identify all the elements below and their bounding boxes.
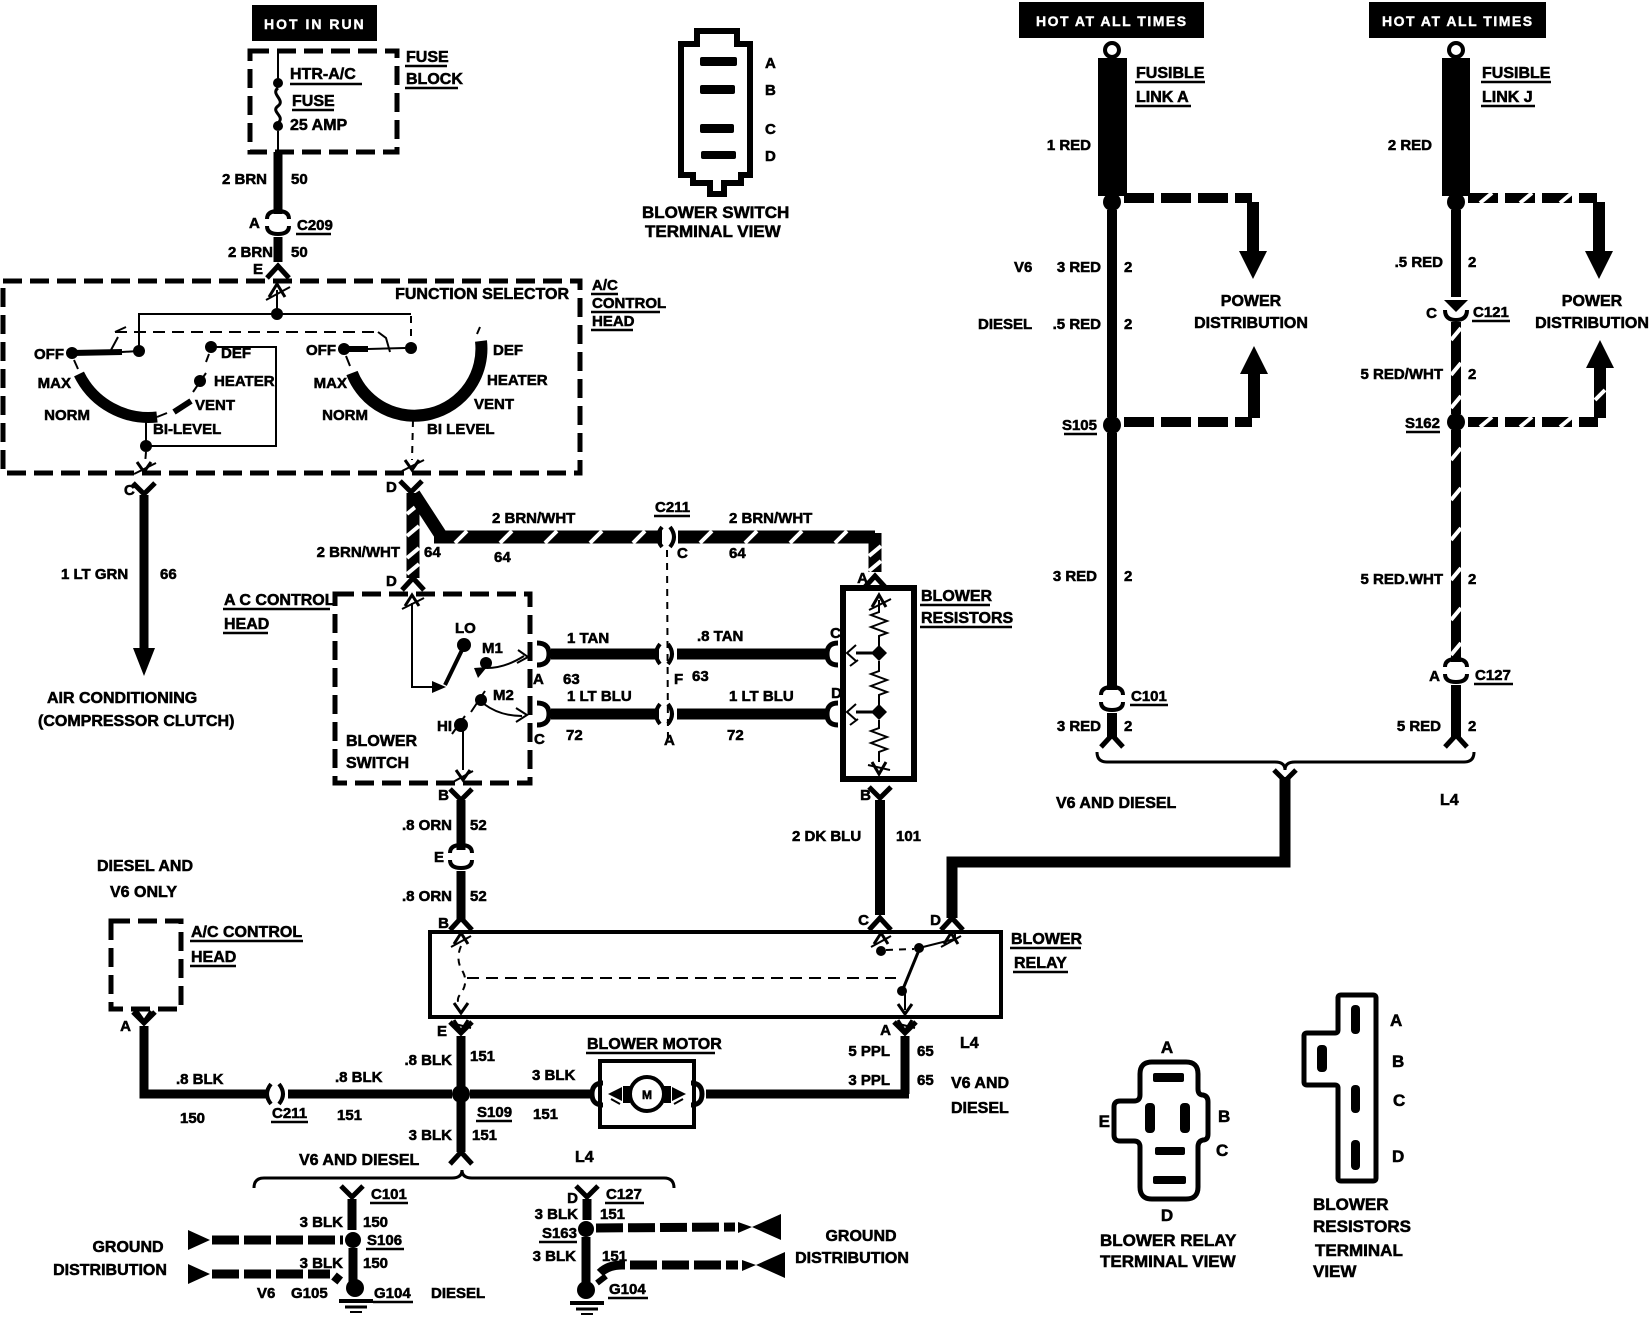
- svg-text:M1: M1: [482, 640, 503, 657]
- svg-text:2 RED: 2 RED: [1388, 137, 1432, 154]
- blower switch box: [335, 594, 530, 783]
- left HEATER contact: [194, 375, 206, 387]
- svg-text:3 RED: 3 RED: [1053, 568, 1097, 585]
- terminal slots: [700, 57, 737, 66]
- svg-text:A: A: [1390, 1011, 1402, 1030]
- wire .8 TAN 63: [677, 649, 826, 660]
- fusible link A: [1098, 58, 1127, 196]
- power tag HOT AT ALL TIMES: [1369, 2, 1546, 38]
- dashed feed up to power distribution: [1124, 417, 1252, 427]
- svg-text:3 BLK: 3 BLK: [533, 1248, 577, 1265]
- svg-text:C: C: [858, 912, 869, 929]
- svg-text:DISTRIBUTION: DISTRIBUTION: [53, 1262, 167, 1279]
- svg-text:A C CONTROL: A C CONTROL: [224, 592, 335, 609]
- connector A on LT BLU: [656, 704, 660, 724]
- svg-text:63: 63: [692, 668, 709, 685]
- wire .8 BLK 150: [144, 1026, 268, 1094]
- svg-text:FUSIBLE: FUSIBLE: [1482, 65, 1551, 82]
- svg-text:C211: C211: [655, 499, 690, 516]
- svg-text:HEAD: HEAD: [592, 313, 635, 330]
- svg-text:POWER: POWER: [1562, 293, 1623, 310]
- svg-text:D: D: [386, 479, 397, 496]
- svg-text:1 TAN: 1 TAN: [567, 630, 609, 647]
- svg-text:E: E: [1099, 1112, 1110, 1131]
- left OFF contact: [66, 347, 78, 359]
- wire 5 RED.WHT 2 hatched: [1451, 430, 1461, 662]
- svg-text:A: A: [765, 55, 776, 72]
- connector C101: [1101, 687, 1123, 695]
- svg-text:65: 65: [917, 1043, 934, 1060]
- wire / node inside: [276, 290, 278, 314]
- svg-text:BLOWER RELAY: BLOWER RELAY: [1100, 1231, 1237, 1250]
- svg-text:NORM: NORM: [44, 407, 90, 424]
- svg-text:MAX: MAX: [38, 375, 71, 392]
- diesel A/C head box: [111, 921, 181, 1009]
- svg-text:.5 RED: .5 RED: [1395, 254, 1444, 271]
- wire end cup at E: [267, 266, 289, 278]
- wire 1 LT GRN 66: [140, 495, 149, 650]
- svg-text:50: 50: [291, 244, 308, 261]
- svg-text:C: C: [1393, 1091, 1405, 1110]
- svg-text:G105: G105: [291, 1285, 328, 1302]
- svg-text:2: 2: [1124, 568, 1132, 585]
- M2 contact: [475, 694, 487, 706]
- dashed feed to power distribution: [1124, 193, 1252, 203]
- svg-text:C101: C101: [371, 1186, 407, 1203]
- svg-text:150: 150: [363, 1214, 388, 1231]
- svg-text:V6: V6: [1014, 259, 1032, 276]
- svg-text:D: D: [1161, 1206, 1173, 1225]
- ground dist arrow upper right: [596, 1227, 735, 1228]
- wire 3 BLK 150 lower: [349, 1248, 358, 1284]
- svg-text:TERMINAL VIEW: TERMINAL VIEW: [645, 222, 782, 241]
- svg-text:HEAD: HEAD: [224, 616, 269, 633]
- svg-text:.8 TAN: .8 TAN: [697, 628, 743, 645]
- svg-text:V6 ONLY: V6 ONLY: [110, 884, 177, 901]
- svg-text:66: 66: [160, 566, 177, 583]
- relay coil entry arrow B: [454, 933, 468, 944]
- dashed connector face line C211: [667, 550, 668, 742]
- svg-text:.5 RED: .5 RED: [1053, 316, 1102, 333]
- svg-text:BLOWER SWITCH: BLOWER SWITCH: [642, 203, 789, 222]
- svg-text:C: C: [677, 545, 688, 562]
- splice S105: [1103, 416, 1121, 434]
- svg-text:L4: L4: [575, 1149, 594, 1166]
- svg-text:1 LT BLU: 1 LT BLU: [729, 688, 794, 705]
- svg-text:NORM: NORM: [322, 407, 368, 424]
- wire 2 BRN 50 upper: [274, 152, 283, 214]
- svg-text:.8 BLK: .8 BLK: [404, 1052, 452, 1069]
- wire 3 RED 2 lower: [1107, 433, 1117, 690]
- connector C211: [654, 499, 690, 547]
- wire 3 BLK 151 below S109: [457, 1102, 466, 1152]
- connector C101 bottom: [341, 1186, 363, 1197]
- svg-text:TERMINAL VIEW: TERMINAL VIEW: [1100, 1252, 1237, 1271]
- battery terminal ring: [1105, 43, 1119, 57]
- svg-text:2 DK BLU: 2 DK BLU: [792, 828, 861, 845]
- motor arrows: [608, 1087, 622, 1101]
- right switch common node: [0, 0, 1, 1]
- svg-text:D: D: [567, 1190, 578, 1207]
- wire 3 BLK 151 lower: [582, 1237, 591, 1286]
- svg-text:BLOWER: BLOWER: [921, 588, 993, 605]
- svg-text:D: D: [386, 573, 397, 590]
- wire 5 RED 2 end: [1451, 685, 1461, 737]
- svg-text:2: 2: [1124, 316, 1132, 333]
- svg-text:C: C: [765, 121, 776, 138]
- svg-text:DISTRIBUTION: DISTRIBUTION: [1535, 315, 1649, 332]
- relay connector outline: [1114, 1062, 1208, 1199]
- svg-text:1 LT BLU: 1 LT BLU: [567, 688, 632, 705]
- svg-text:BLOWER: BLOWER: [346, 733, 418, 750]
- connector C209: [249, 211, 333, 234]
- resistor terminal D cup: [827, 703, 838, 725]
- svg-text:GROUND: GROUND: [92, 1239, 163, 1256]
- svg-text:DISTRIBUTION: DISTRIBUTION: [1194, 315, 1308, 332]
- svg-text:(COMPRESSOR CLUTCH): (COMPRESSOR CLUTCH): [38, 713, 234, 730]
- svg-text:G104: G104: [374, 1285, 411, 1302]
- svg-text:DISTRIBUTION: DISTRIBUTION: [795, 1250, 909, 1267]
- svg-text:150: 150: [363, 1255, 388, 1272]
- svg-text:C211: C211: [272, 1105, 307, 1122]
- wire .5 RED 2: [1451, 210, 1461, 297]
- svg-text:63: 63: [563, 671, 580, 688]
- right OFF contact: [338, 343, 350, 355]
- svg-text:151: 151: [600, 1206, 625, 1223]
- svg-text:.8 ORN: .8 ORN: [402, 817, 452, 834]
- LO contact: [445, 650, 462, 685]
- svg-text:2: 2: [1468, 254, 1476, 271]
- svg-text:VENT: VENT: [474, 396, 514, 413]
- svg-text:2: 2: [1468, 718, 1476, 735]
- right rotor arc: [352, 341, 481, 416]
- wire 2 BRN 50 lower: [274, 237, 283, 262]
- svg-text:FUNCTION SELECTOR: FUNCTION SELECTOR: [395, 286, 569, 303]
- svg-text:LINK A: LINK A: [1136, 89, 1189, 106]
- fuse HTR-A/C 25A: [273, 66, 362, 152]
- label FUSE BLOCK: [405, 49, 463, 88]
- connector C127 bottom: [576, 1186, 598, 1197]
- resistor element 3: [871, 720, 887, 762]
- relay exit A arrow: [898, 1020, 912, 1031]
- svg-text:BLOWER MOTOR: BLOWER MOTOR: [587, 1036, 722, 1053]
- splice node below link J: [1447, 193, 1465, 211]
- relay slots: [1153, 1073, 1184, 1082]
- svg-text:2 BRN/WHT: 2 BRN/WHT: [729, 510, 812, 527]
- power tag HOT IN RUN: [252, 5, 377, 41]
- svg-text:72: 72: [566, 727, 583, 744]
- svg-text:S163: S163: [542, 1225, 577, 1242]
- resistors connector outline: [1304, 995, 1376, 1181]
- resistor terminal C cup: [827, 643, 838, 665]
- svg-text:MAX: MAX: [314, 375, 347, 392]
- ground dist arrow lower left: [188, 1264, 210, 1284]
- relay exit E arrow: [454, 1020, 468, 1031]
- svg-text:C209: C209: [297, 217, 333, 234]
- wire bus across selector: [139, 314, 411, 351]
- wire 1 LT BLU 72 right: [677, 709, 826, 720]
- svg-text:VIEW: VIEW: [1313, 1262, 1357, 1281]
- svg-text:C: C: [1426, 305, 1437, 322]
- svg-text:SWITCH: SWITCH: [346, 755, 409, 772]
- svg-text:FUSE: FUSE: [292, 93, 335, 110]
- svg-text:G104: G104: [609, 1281, 646, 1298]
- svg-text:DIESEL AND: DIESEL AND: [97, 858, 193, 875]
- svg-text:A/C: A/C: [592, 277, 618, 294]
- svg-text:S109: S109: [477, 1104, 512, 1121]
- HI contact: [454, 718, 468, 732]
- svg-text:3 PPL: 3 PPL: [848, 1072, 890, 1089]
- svg-text:AIR CONDITIONING: AIR CONDITIONING: [47, 690, 197, 707]
- svg-text:3 BLK: 3 BLK: [409, 1127, 453, 1144]
- wire 3 BLK 151: [583, 1199, 592, 1220]
- svg-text:151: 151: [472, 1127, 497, 1144]
- svg-text:RESISTORS: RESISTORS: [921, 610, 1014, 627]
- svg-text:OFF: OFF: [34, 346, 64, 363]
- svg-text:C: C: [830, 625, 841, 642]
- relay contact C arrow: [874, 933, 888, 944]
- svg-text:A: A: [664, 732, 675, 749]
- exit arrow bottom: [872, 762, 886, 774]
- entry arrow E into selector: [266, 284, 290, 300]
- wire 3 RED 2: [1107, 210, 1117, 417]
- svg-text:D: D: [930, 912, 941, 929]
- svg-text:BI-LEVEL: BI-LEVEL: [153, 421, 221, 438]
- battery terminal ring: [1449, 43, 1463, 57]
- wire 3 PPL to motor: [706, 1090, 909, 1099]
- svg-text:.8 BLK: .8 BLK: [176, 1071, 224, 1088]
- resistor element 1: [871, 610, 887, 648]
- relay internal dashed bus: [467, 977, 896, 979]
- node junction: [271, 308, 283, 320]
- svg-text:2: 2: [1468, 571, 1476, 588]
- svg-text:2: 2: [1468, 366, 1476, 383]
- svg-text:1 LT GRN: 1 LT GRN: [61, 566, 128, 583]
- svg-text:V6 AND: V6 AND: [951, 1075, 1009, 1092]
- svg-text:HOT IN RUN: HOT IN RUN: [264, 16, 366, 32]
- relay contact network: [876, 946, 886, 956]
- svg-text:L4: L4: [1440, 792, 1459, 809]
- wire 2 BRN/WHT right of C211: [678, 531, 881, 572]
- brace V6 AND DIESEL / L4: [254, 1170, 674, 1188]
- svg-text:A/C CONTROL: A/C CONTROL: [191, 924, 302, 941]
- connector C211 lower: [267, 1084, 271, 1104]
- power tag HOT AT ALL TIMES: [1019, 2, 1204, 38]
- resistor element 2: [871, 661, 887, 707]
- svg-text:BLOWER: BLOWER: [1313, 1195, 1389, 1214]
- svg-text:B: B: [438, 787, 449, 804]
- switch wiper feed: [412, 603, 432, 687]
- svg-text:HEATER: HEATER: [487, 372, 548, 389]
- wire 1 LT BLU 72: [551, 709, 659, 720]
- svg-text:A: A: [120, 1018, 131, 1035]
- svg-text:A: A: [1161, 1038, 1173, 1057]
- wire 2 BRN/WHT diagonal+horizontal 64: [414, 494, 662, 543]
- svg-text:E: E: [437, 1023, 447, 1040]
- svg-text:2 BRN/WHT: 2 BRN/WHT: [317, 544, 400, 561]
- svg-text:TERMINAL: TERMINAL: [1315, 1241, 1403, 1260]
- svg-text:3 BLK: 3 BLK: [535, 1206, 579, 1223]
- svg-text:A: A: [1429, 668, 1440, 685]
- left DEF contact: [205, 341, 217, 353]
- svg-text:LO: LO: [455, 620, 476, 637]
- left VENT contact: [174, 401, 191, 412]
- svg-text:65: 65: [917, 1072, 934, 1089]
- svg-text:E: E: [253, 261, 263, 278]
- svg-text:25 AMP: 25 AMP: [290, 117, 348, 134]
- svg-text:52: 52: [470, 817, 487, 834]
- splice S163: [578, 1221, 594, 1237]
- svg-text:.8 ORN: .8 ORN: [402, 888, 452, 905]
- dashed hatched feed up to power distribution: [1468, 417, 1598, 427]
- svg-text:5 RED.WHT: 5 RED.WHT: [1361, 571, 1444, 588]
- svg-text:2 BRN/WHT: 2 BRN/WHT: [492, 510, 575, 527]
- connector F: [656, 644, 660, 664]
- resistors box: [843, 588, 914, 779]
- svg-text:HEATER: HEATER: [214, 373, 275, 390]
- svg-text:64: 64: [424, 544, 441, 561]
- svg-text:3 BLK: 3 BLK: [300, 1255, 344, 1272]
- svg-text:B: B: [765, 82, 776, 99]
- label BLOWER RELAY: [1010, 931, 1083, 972]
- motor box: [600, 1061, 694, 1127]
- svg-text:V6 AND DIESEL: V6 AND DIESEL: [299, 1152, 420, 1169]
- relay coil dashed: [458, 946, 465, 1006]
- svg-text:C127: C127: [1475, 667, 1511, 684]
- dashed to C exit: [145, 452, 146, 464]
- svg-text:M: M: [642, 1088, 652, 1102]
- splice node below link A: [1103, 193, 1121, 211]
- dashed to D exit: [412, 420, 413, 460]
- label A/C CONTROL HEAD: [591, 277, 666, 330]
- svg-text:GROUND: GROUND: [825, 1228, 896, 1245]
- svg-text:POWER: POWER: [1221, 293, 1282, 310]
- svg-text:S105: S105: [1062, 417, 1097, 434]
- svg-text:2: 2: [1124, 718, 1132, 735]
- label A C CONTROL HEAD: [223, 592, 335, 633]
- wire 3 BLK 150: [348, 1199, 357, 1230]
- svg-text:50: 50: [291, 171, 308, 188]
- svg-text:.8 BLK: .8 BLK: [335, 1069, 383, 1086]
- svg-text:52: 52: [470, 888, 487, 905]
- svg-text:B: B: [438, 915, 449, 932]
- svg-text:HEAD: HEAD: [191, 949, 236, 966]
- left contact return outline: [146, 347, 276, 446]
- svg-text:DIESEL: DIESEL: [431, 1285, 485, 1302]
- wire 3 BLK 151 left of motor: [470, 1090, 592, 1099]
- svg-text:HOT AT ALL TIMES: HOT AT ALL TIMES: [1036, 13, 1188, 29]
- svg-text:101: 101: [896, 828, 921, 845]
- svg-text:RELAY: RELAY: [1014, 955, 1067, 972]
- svg-text:DEF: DEF: [493, 342, 523, 359]
- BI-LEVEL node: [140, 440, 152, 452]
- svg-text:64: 64: [494, 549, 511, 566]
- wire 5 RED/WHT 2 hatched: [1451, 322, 1461, 414]
- wire 2 DK BLU 101: [875, 800, 885, 915]
- svg-text:2 BRN: 2 BRN: [228, 244, 273, 261]
- node D arm: [871, 704, 887, 720]
- svg-text:CONTROL: CONTROL: [592, 295, 666, 312]
- wire 5 PPL / 3 PPL 65: [901, 1036, 910, 1094]
- svg-text:151: 151: [337, 1107, 362, 1124]
- wire .8 BLK 151: [457, 1036, 466, 1086]
- motor connector cups: [592, 1083, 603, 1105]
- svg-text:V6 AND DIESEL: V6 AND DIESEL: [1056, 795, 1177, 812]
- svg-text:OFF: OFF: [306, 342, 336, 359]
- fusible link J: [1442, 58, 1470, 196]
- blower switch connector outline: [681, 31, 750, 194]
- wire .8 BLK 151: [288, 1090, 452, 1099]
- svg-text:HOT AT ALL TIMES: HOT AT ALL TIMES: [1382, 13, 1534, 29]
- splice S109: [452, 1085, 470, 1103]
- svg-text:E: E: [434, 849, 444, 866]
- wire 3 RED 2 end: [1107, 713, 1117, 737]
- left switch common node: [133, 345, 145, 357]
- wire 2 BRN/WHT vertical 64: [407, 493, 419, 578]
- svg-text:64: 64: [729, 545, 746, 562]
- svg-text:3 BLK: 3 BLK: [532, 1067, 576, 1084]
- wire 1 TAN 63: [551, 649, 659, 660]
- label A/C CONTROL HEAD: [190, 924, 303, 966]
- svg-text:151: 151: [533, 1106, 558, 1123]
- wire into fuse: [277, 53, 279, 80]
- svg-text:C: C: [1216, 1141, 1228, 1160]
- resistors slots: [1351, 1005, 1360, 1034]
- svg-text:3 BLK: 3 BLK: [300, 1214, 344, 1231]
- ground G104 right: [570, 1281, 604, 1314]
- svg-text:A: A: [249, 215, 260, 232]
- svg-text:BLOCK: BLOCK: [406, 71, 463, 88]
- svg-text:V6: V6: [257, 1285, 275, 1302]
- svg-text:5 RED: 5 RED: [1397, 718, 1441, 735]
- svg-text:DIESEL: DIESEL: [951, 1100, 1009, 1117]
- svg-text:BLOWER: BLOWER: [1011, 931, 1083, 948]
- relay D arrow: [944, 933, 958, 944]
- dashed feed to power distribution: [1468, 193, 1597, 203]
- splice S106: [345, 1232, 361, 1248]
- svg-text:S106: S106: [367, 1232, 402, 1249]
- svg-text:2 BRN: 2 BRN: [222, 171, 267, 188]
- svg-text:B: B: [1392, 1052, 1404, 1071]
- wire HI to B: [462, 729, 464, 770]
- svg-text:M2: M2: [493, 687, 514, 704]
- svg-text:72: 72: [727, 727, 744, 744]
- motor symbol: [623, 1086, 630, 1103]
- svg-text:F: F: [674, 671, 683, 688]
- svg-text:FUSE: FUSE: [406, 49, 449, 66]
- svg-text:A: A: [880, 1022, 891, 1039]
- svg-text:C: C: [534, 731, 545, 748]
- svg-text:2: 2: [1124, 259, 1132, 276]
- node C arm: [871, 645, 887, 661]
- svg-text:C121: C121: [1473, 304, 1509, 321]
- ground dist arrow upper left: [188, 1230, 210, 1250]
- svg-text:VENT: VENT: [195, 397, 235, 414]
- ground G104 left: [339, 1279, 373, 1312]
- svg-text:D: D: [765, 148, 776, 165]
- svg-text:150: 150: [180, 1110, 205, 1127]
- svg-text:5 RED/WHT: 5 RED/WHT: [1361, 366, 1444, 383]
- svg-text:HTR-A/C: HTR-A/C: [290, 66, 356, 83]
- svg-text:HI: HI: [437, 718, 452, 735]
- svg-text:A: A: [533, 671, 544, 688]
- label BLOWER RESISTORS: [920, 588, 1014, 627]
- svg-text:1 RED: 1 RED: [1047, 137, 1091, 154]
- svg-text:5 PPL: 5 PPL: [848, 1043, 890, 1060]
- svg-text:151: 151: [470, 1048, 495, 1065]
- svg-text:RESISTORS: RESISTORS: [1313, 1217, 1411, 1236]
- svg-text:D: D: [1392, 1147, 1404, 1166]
